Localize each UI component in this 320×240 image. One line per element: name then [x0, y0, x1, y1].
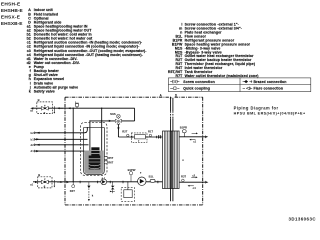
R1T thermistor — [149, 134, 151, 137]
svg-text:b1: b1 — [31, 137, 35, 141]
a2 arrow after boundary — [68, 107, 71, 109]
svg-text:R2T: R2T — [122, 130, 127, 134]
svg-text:Safety valve: Safety valve — [34, 89, 55, 93]
svg-text:Flare connection: Flare connection — [254, 87, 284, 91]
svg-text:a2: a2 — [30, 108, 34, 112]
B1L flow sensor — [150, 179, 155, 182]
HX riser pipes top — [170, 98, 172, 131]
b1 arrow right — [36, 138, 39, 140]
svg-text:Brazed connection: Brazed connection — [254, 80, 287, 84]
wire: refrigerant bottom line — [179, 181, 206, 183]
svg-text:R7T: R7T — [175, 74, 183, 78]
connection symbol table — [168, 78, 310, 92]
svg-text:c1: c1 — [193, 140, 196, 144]
svg-text:Water outlet thermistor (main/: Water outlet thermistor (main/mixed zone… — [185, 74, 259, 78]
pump e — [101, 179, 107, 185]
svg-text:B1PR: B1PR — [180, 126, 187, 130]
wire: vertical pipe x101.7 (a2 tee down) — [101, 108, 103, 131]
left legend — [27, 8, 148, 93]
wire: tank loop verticals — [89, 121, 91, 152]
shutoff valve box (a2, field installed B) — [37, 98, 53, 114]
tank sensor wells R5T R6T — [104, 156, 107, 164]
svg-text:B: B — [38, 98, 40, 102]
svg-text:j: j — [74, 100, 76, 104]
plate heat exchanger n — [163, 131, 180, 189]
R2T thermistor on heater line — [127, 134, 129, 137]
b2 arrow left — [36, 132, 39, 134]
node dots — [73, 108, 129, 183]
air purge valve j — [75, 103, 79, 108]
tank water fill — [84, 151, 104, 174]
coil white stripes — [89, 151, 101, 169]
wire: M1S line — [90, 120, 135, 122]
svg-text:EHSH-E: EHSH-E — [1, 1, 21, 7]
svg-text:3D136063C: 3D136063C — [289, 217, 317, 222]
svg-text:Screw connection: Screw connection — [183, 80, 215, 84]
tank coil upper block — [91, 147, 99, 155]
a1 arrow (in, right) — [35, 181, 38, 183]
svg-text:B1PW: B1PW — [128, 168, 136, 172]
wire: b2 line — [35, 127, 88, 133]
wire: refrigerant top line — [179, 136, 205, 138]
wire: a2 line — [34, 108, 135, 121]
backup heater f — [131, 133, 147, 143]
d2 arrow left — [36, 144, 39, 146]
tank dashed outline — [81, 122, 108, 175]
wire: d1 line — [35, 150, 91, 152]
svg-text:EHSXB-E: EHSXB-E — [1, 21, 23, 27]
svg-text:Quick coupling: Quick coupling — [183, 87, 210, 91]
svg-text:b2: b2 — [31, 131, 35, 135]
R3T thermistor — [182, 179, 185, 182]
tank coil lower block — [89, 156, 101, 170]
svg-text:B: B — [38, 173, 40, 177]
symbol: flare connection — [243, 87, 253, 90]
pump e big — [138, 177, 146, 185]
safety valve k — [87, 182, 90, 201]
B1PR pressure sensor — [182, 130, 186, 137]
svg-text:M1S: M1S — [110, 112, 116, 116]
black valve before HX — [158, 135, 161, 139]
arrow after boundary on a1 — [66, 181, 69, 183]
svg-text:R4T: R4T — [70, 189, 75, 193]
shutoff valve box (a1) — [38, 173, 52, 188]
expansion vessel h — [121, 182, 134, 202]
svg-text:k: k — [29, 89, 31, 93]
symbol: quick coupling — [170, 87, 179, 90]
drain valve i on bottom line — [110, 182, 115, 193]
d1 arrow right — [36, 150, 39, 152]
svg-text:R3T: R3T — [181, 174, 186, 178]
end connector bottom — [206, 181, 209, 184]
svg-text:Piping Diagram for: Piping Diagram for — [234, 105, 279, 110]
svg-text:a1: a1 — [30, 183, 34, 187]
screw connection ticks — [35, 132, 158, 184]
port labels — [30, 108, 34, 186]
a2 second arrow before boundary, left — [57, 107, 60, 109]
tank vessel — [84, 128, 105, 175]
right legend — [168, 23, 259, 78]
line-start arrows — [30, 107, 119, 183]
svg-text:HPSU BML ERS(H/X)+(04/08)P+E+: HPSU BML ERS(H/X)+(04/08)P+E+ — [234, 111, 306, 115]
wire: M1S down to heater line — [117, 123, 119, 138]
valve g — [41, 106, 48, 110]
svg-text:d2: d2 — [31, 143, 35, 147]
wire: vertical pipe x73.2 — [72, 108, 74, 182]
a1 second arrow before boundary, right — [60, 181, 63, 183]
svg-text:R5T: R5T — [108, 156, 113, 160]
wire: b1 line — [35, 138, 88, 140]
wire: d2 line — [35, 144, 89, 146]
wire: bottom water line a1 — [33, 181, 163, 183]
arrow down from M1S to heater — [117, 127, 119, 130]
refrigerant top line arrows/labels — [189, 133, 198, 141]
svg-text:c2: c2 — [192, 173, 195, 177]
svg-text:d1: d1 — [31, 149, 35, 153]
symbol: brazed connection — [243, 80, 253, 83]
svg-text:B1L: B1L — [149, 175, 154, 179]
unit A boundary (dash-dot) — [65, 97, 203, 205]
HX riser pipes bottom — [171, 189, 173, 202]
svg-text:c4: c4 — [193, 186, 196, 190]
wire: heater line — [118, 136, 162, 138]
svg-text:f: f — [138, 139, 139, 143]
a2 arrow (out, left) — [30, 107, 33, 109]
drain cross+stub on a2 before boundary — [54, 106, 56, 187]
drain cross+stub on a1 before boundary — [53, 180, 55, 186]
svg-text:R1T: R1T — [148, 130, 153, 134]
arrow on M1S line — [109, 120, 112, 122]
B1PW pressure sensor — [129, 172, 132, 182]
svg-text:R6T: R6T — [108, 161, 113, 165]
svg-text:EHSX-E: EHSX-E — [1, 15, 21, 21]
symbol: screw connection — [170, 80, 179, 83]
3-way valve M1S — [115, 114, 121, 124]
model names — [1, 1, 24, 27]
R4T thermistor below a1 line — [72, 182, 75, 188]
end connector top — [205, 136, 208, 139]
svg-text:EHSHB-E: EHSHB-E — [1, 8, 24, 14]
title block — [234, 105, 317, 221]
refrigerant bottom line arrows/labels — [188, 176, 198, 186]
